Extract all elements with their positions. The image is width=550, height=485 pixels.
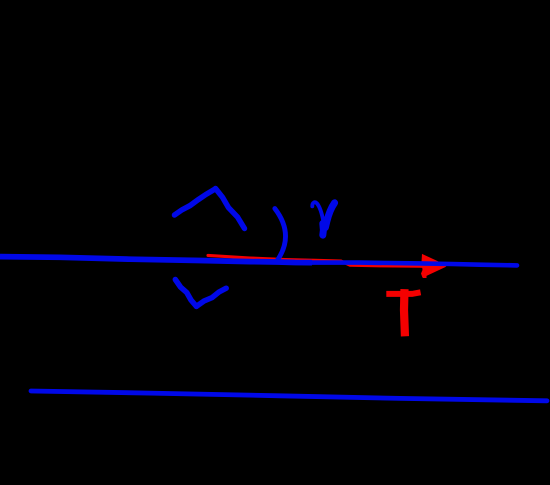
- label gamma: [312, 202, 334, 235]
- angle arc for gamma: [275, 209, 286, 261]
- knot square upper-right edge: [216, 189, 245, 229]
- knot square upper-left edge: [175, 189, 216, 215]
- label T (red, hand drawn): [386, 292, 420, 294]
- wire: main rope line left part (blue): [0, 257, 312, 263]
- tension vector T shaft (red): [208, 255, 433, 266]
- tension vector arrowhead: [421, 254, 446, 278]
- stray red mark: [423, 275, 427, 278]
- knot square lower-right edge: [196, 288, 226, 306]
- wire: main rope line right part (blue): [310, 263, 517, 266]
- wire: lower rope line (blue): [31, 391, 547, 401]
- knot square lower-left edge: [175, 280, 196, 307]
